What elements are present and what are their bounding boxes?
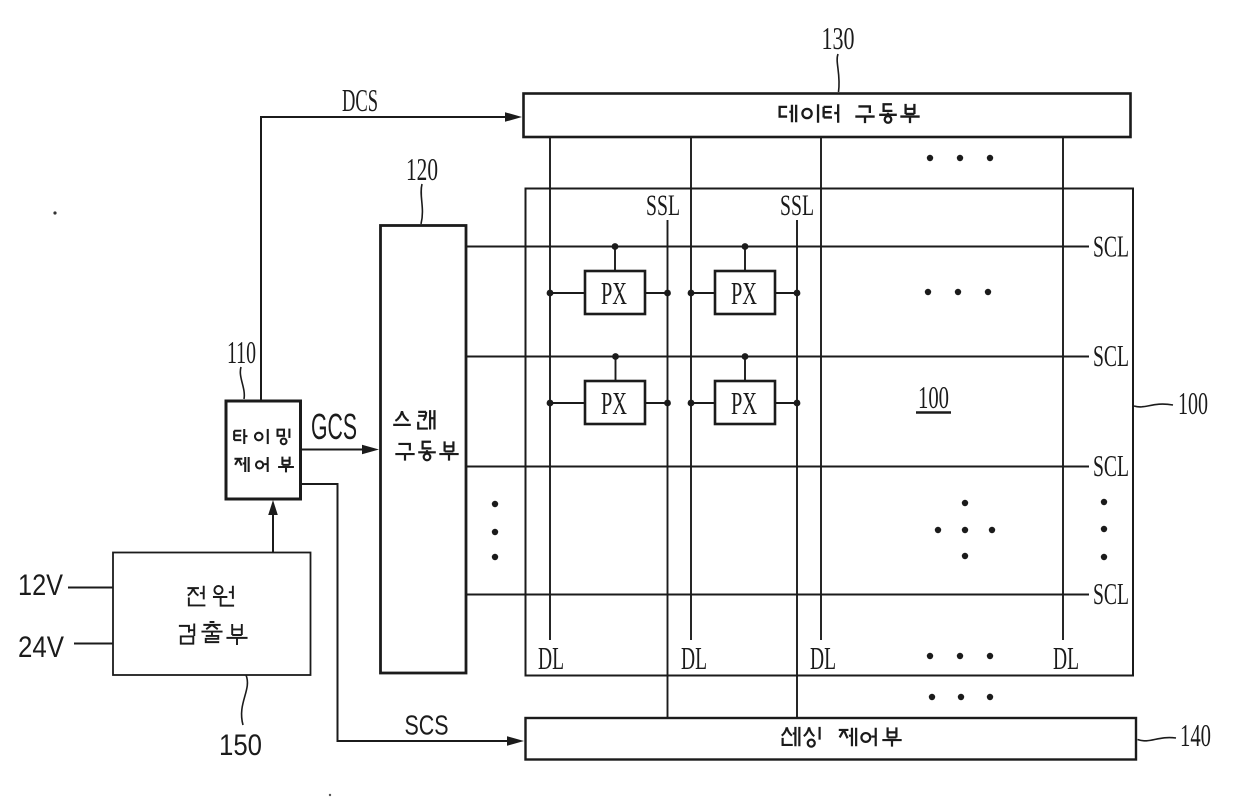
svg-text:150: 150 [219, 729, 262, 762]
svg-text:SCS: SCS [405, 710, 449, 741]
svg-text:DL: DL [538, 640, 564, 676]
svg-text:PX: PX [601, 275, 627, 311]
svg-text:SSL: SSL [780, 189, 814, 222]
svg-text:130: 130 [822, 20, 855, 56]
svg-text:SCL: SCL [1093, 448, 1129, 483]
svg-text:SCL: SCL [1093, 229, 1129, 264]
svg-text:100: 100 [1178, 385, 1208, 421]
svg-text:DCS: DCS [342, 82, 378, 118]
svg-text:DL: DL [1053, 640, 1079, 676]
svg-text:PX: PX [731, 275, 757, 311]
svg-text:120: 120 [406, 151, 438, 187]
svg-text:DL: DL [681, 640, 707, 676]
svg-text:PX: PX [601, 385, 627, 421]
svg-text:DL: DL [810, 640, 836, 676]
svg-text:SCL: SCL [1093, 338, 1129, 373]
svg-text:PX: PX [731, 385, 757, 421]
svg-text:140: 140 [1180, 717, 1211, 753]
svg-text:110: 110 [227, 334, 256, 370]
svg-text:24V: 24V [18, 631, 64, 664]
svg-text:SCL: SCL [1093, 576, 1129, 611]
svg-text:100: 100 [918, 379, 949, 415]
svg-text:SSL: SSL [646, 189, 680, 222]
svg-text:12V: 12V [18, 569, 63, 602]
svg-text:GCS: GCS [311, 406, 357, 447]
